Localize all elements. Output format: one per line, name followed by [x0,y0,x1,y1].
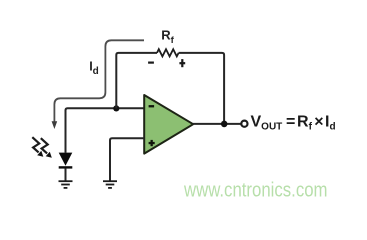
arrowhead of Id annotation [52,121,58,129]
svg-text:Rf: Rf [161,28,174,46]
label plus (resistor right polarity) [179,59,185,67]
svg-text:×: × [314,114,323,131]
wire main input horizontal (photodiode node to inverting input) [66,108,145,153]
label minus (resistor left polarity) [148,62,154,64]
svg-text:VOUT: VOUT [251,114,283,133]
light arrow 2 [41,138,52,158]
svg-text:www.cntronics.com: www.cntronics.com [183,180,327,202]
node junction dot inverting input [113,105,119,111]
ground (op-amp non-inverting input) [103,181,117,188]
light arrow 1 [32,137,43,157]
photodiode D1 [59,153,73,181]
svg-text:Rf: Rf [297,114,313,133]
wire feedback top right and right vertical [179,53,225,124]
resistor Rf [157,49,179,56]
label plus (non-inverting input) [149,140,155,146]
wire op-amp output [193,123,241,125]
label minus (inverting input) [149,105,155,107]
svg-text:Id: Id [89,59,99,77]
svg-text:Id: Id [325,114,336,133]
op-amp U1 [144,95,193,154]
wire feedback left vertical [116,53,157,109]
svg-text:=: = [286,114,295,131]
wire non-inverting input to ground [110,138,145,181]
ground (photodiode) [59,181,73,188]
output terminal circle [241,121,247,127]
node output junction dot [221,121,228,128]
current annotation arrow Id path [54,40,144,122]
